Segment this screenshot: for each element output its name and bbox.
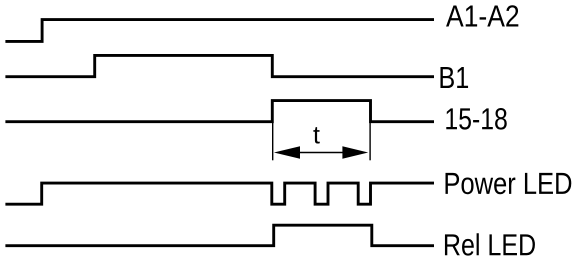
dimension arrowhead left bbox=[274, 146, 300, 159]
waveform A1-A2 supply voltage trace bbox=[5, 20, 434, 42]
waveform Rel LED trace bbox=[5, 225, 434, 246]
label t timing interval bbox=[313, 127, 319, 143]
dimension extension line left bbox=[272, 121, 274, 161]
dimension arrow shaft bbox=[298, 152, 345, 154]
label Rel LED bbox=[445, 233, 535, 255]
dimension extension line right bbox=[369, 121, 371, 161]
waveform 15-18 relay contact trace bbox=[5, 101, 434, 122]
dimension arrowhead right bbox=[342, 146, 368, 159]
waveform Power LED trace with blink notches bbox=[5, 183, 434, 204]
label Power LED bbox=[445, 173, 571, 194]
label B1 bbox=[440, 67, 468, 88]
waveform B1 control input trace bbox=[5, 55, 434, 76]
label A1-A2 bbox=[446, 5, 518, 26]
label 15-18 bbox=[446, 108, 506, 130]
